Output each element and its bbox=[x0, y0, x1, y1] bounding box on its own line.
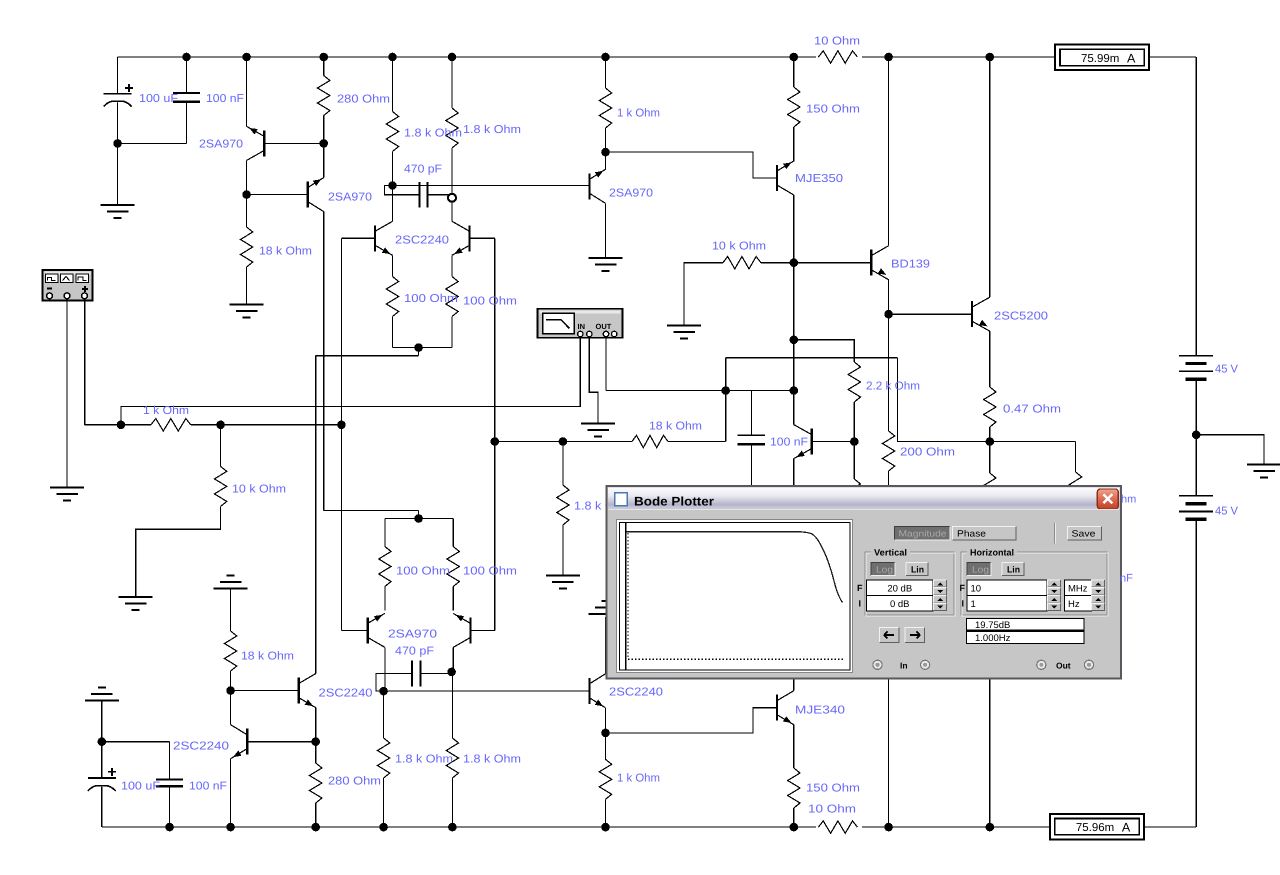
svg-text:Lin: Lin bbox=[911, 565, 924, 575]
svg-text:10 Ohm: 10 Ohm bbox=[808, 804, 856, 816]
svg-text:470 pF: 470 pF bbox=[404, 164, 442, 176]
svg-text:100 Ohm: 100 Ohm bbox=[463, 296, 517, 308]
svg-text:18 k Ohm: 18 k Ohm bbox=[649, 421, 702, 433]
svg-text:2SA970: 2SA970 bbox=[609, 188, 653, 200]
svg-text:Log: Log bbox=[876, 565, 893, 575]
svg-text:MJE340: MJE340 bbox=[795, 705, 845, 717]
svg-text:75.96m: 75.96m bbox=[1076, 822, 1114, 834]
svg-text:2SC2240: 2SC2240 bbox=[395, 235, 449, 247]
svg-text:MHz: MHz bbox=[1068, 584, 1088, 595]
svg-text:In: In bbox=[900, 661, 908, 671]
svg-text:100 Ohm: 100 Ohm bbox=[463, 566, 517, 578]
svg-text:45 V: 45 V bbox=[1215, 506, 1238, 518]
svg-text:1: 1 bbox=[971, 599, 976, 610]
svg-text:0 dB: 0 dB bbox=[890, 599, 910, 610]
svg-text:MJE350: MJE350 bbox=[795, 173, 843, 185]
svg-text:10 k Ohm: 10 k Ohm bbox=[232, 484, 286, 496]
svg-text:2SC5200: 2SC5200 bbox=[994, 311, 1048, 323]
svg-text:10 Ohm: 10 Ohm bbox=[814, 36, 860, 48]
svg-text:2SA970: 2SA970 bbox=[328, 192, 372, 204]
svg-text:1.8 k Ohm: 1.8 k Ohm bbox=[463, 124, 521, 136]
svg-text:0.47 Ohm: 0.47 Ohm bbox=[1003, 404, 1061, 416]
svg-text:1.8 k Ohm: 1.8 k Ohm bbox=[404, 128, 462, 140]
svg-text:hm: hm bbox=[1121, 494, 1136, 506]
svg-text:1 k Ohm: 1 k Ohm bbox=[617, 773, 660, 785]
svg-text:OUT: OUT bbox=[596, 322, 612, 331]
svg-text:150 Ohm: 150 Ohm bbox=[806, 104, 860, 116]
svg-text:Log: Log bbox=[972, 565, 989, 575]
svg-text:18 k Ohm: 18 k Ohm bbox=[241, 651, 294, 663]
svg-text:Out: Out bbox=[1056, 661, 1071, 671]
svg-text:Hz: Hz bbox=[1068, 599, 1080, 610]
svg-text:nF: nF bbox=[1120, 573, 1133, 585]
svg-text:19.75dB: 19.75dB bbox=[975, 620, 1010, 631]
svg-text:100 nF: 100 nF bbox=[770, 437, 808, 449]
svg-text:2SC2240: 2SC2240 bbox=[319, 688, 373, 700]
svg-text:1 k Ohm: 1 k Ohm bbox=[143, 405, 189, 417]
svg-text:10 k Ohm: 10 k Ohm bbox=[712, 241, 766, 253]
svg-text:45 V: 45 V bbox=[1215, 364, 1238, 376]
svg-text:100 nF: 100 nF bbox=[189, 781, 227, 793]
svg-text:BD139: BD139 bbox=[891, 259, 930, 271]
svg-text:100 nF: 100 nF bbox=[206, 93, 244, 105]
svg-text:Save: Save bbox=[1072, 529, 1096, 539]
svg-text:2.2 k Ohm: 2.2 k Ohm bbox=[866, 381, 920, 393]
svg-text:Phase: Phase bbox=[957, 529, 986, 539]
svg-text:1.8 k Ohm: 1.8 k Ohm bbox=[463, 754, 521, 766]
svg-text:F: F bbox=[960, 583, 966, 593]
svg-text:200 Ohm: 200 Ohm bbox=[900, 447, 955, 459]
svg-text:20 dB: 20 dB bbox=[887, 584, 912, 595]
svg-text:18 k Ohm: 18 k Ohm bbox=[259, 246, 312, 258]
svg-text:10: 10 bbox=[971, 584, 982, 595]
svg-text:75.99m: 75.99m bbox=[1081, 53, 1119, 65]
svg-text:Bode Plotter: Bode Plotter bbox=[634, 495, 714, 509]
svg-text:2SC2240: 2SC2240 bbox=[609, 687, 663, 699]
svg-text:100 Ohm: 100 Ohm bbox=[404, 293, 458, 305]
svg-text:100 uF: 100 uF bbox=[139, 93, 178, 105]
svg-text:470 pF: 470 pF bbox=[395, 646, 434, 658]
svg-text:IN: IN bbox=[578, 322, 586, 331]
svg-text:Horizontal: Horizontal bbox=[970, 548, 1014, 558]
svg-text:100 uF: 100 uF bbox=[121, 781, 160, 793]
svg-text:I: I bbox=[859, 599, 862, 609]
svg-text:150 Ohm: 150 Ohm bbox=[806, 783, 860, 795]
svg-text:Vertical: Vertical bbox=[874, 548, 907, 558]
svg-text:I: I bbox=[962, 599, 965, 609]
svg-text:1.000Hz: 1.000Hz bbox=[975, 633, 1011, 644]
svg-text:100 Ohm: 100 Ohm bbox=[396, 566, 450, 578]
svg-text:A: A bbox=[1127, 51, 1136, 65]
svg-text:Magnitude: Magnitude bbox=[899, 529, 947, 539]
svg-text:1 k Ohm: 1 k Ohm bbox=[617, 108, 660, 120]
svg-text:2SA970: 2SA970 bbox=[199, 139, 243, 151]
svg-text:2SA970: 2SA970 bbox=[388, 629, 437, 641]
svg-text:A: A bbox=[1122, 821, 1131, 835]
svg-text:280 Ohm: 280 Ohm bbox=[337, 94, 390, 106]
svg-text:280 Ohm: 280 Ohm bbox=[328, 776, 381, 788]
svg-text:2SC2240: 2SC2240 bbox=[173, 741, 229, 753]
svg-text:Lin: Lin bbox=[1007, 565, 1020, 575]
svg-text:F: F bbox=[857, 583, 863, 593]
svg-text:1.8 k Ohm: 1.8 k Ohm bbox=[395, 754, 453, 766]
